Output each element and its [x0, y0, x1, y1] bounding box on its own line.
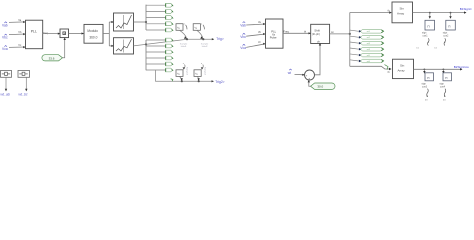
- wire to lookup2: [109, 45, 113, 47]
- wire Vab to PLL: [9, 21, 26, 23]
- svg-text:wt_ab: wt_ab: [1, 93, 10, 97]
- goto tag T5: [350, 53, 384, 57]
- measurement block M2: [18, 71, 30, 78]
- svg-text:Vab: Vab: [240, 24, 246, 28]
- probe block P3: [422, 73, 434, 102]
- fanout vertical V2: [145, 40, 147, 70]
- goto tag G3: [146, 16, 173, 20]
- svg-text:wt: wt: [288, 71, 291, 75]
- svg-text:z: z: [184, 24, 185, 26]
- svg-text:Shift: Shift: [314, 28, 320, 32]
- svg-text:Array: Array: [398, 69, 406, 73]
- svg-text:Hold2: Hold2: [202, 46, 208, 48]
- lookup table L1: [114, 13, 134, 31]
- lookup table L2: [114, 38, 134, 54]
- svg-text:Vca: Vca: [240, 46, 246, 50]
- green marker near Sin Array2 input: [385, 65, 389, 70]
- svg-text:Trig2>: Trig2>: [215, 80, 224, 84]
- svg-text:z: z: [201, 63, 202, 65]
- svg-text:wt_bc: wt_bc: [19, 93, 28, 97]
- sum block S1: [305, 70, 315, 81]
- probe block P1: [417, 20, 435, 49]
- goto tag G6: [146, 38, 173, 42]
- wire Sin Array2 out: [414, 68, 463, 70]
- from label Vbc (input 2): [2, 34, 8, 40]
- subsystem PLL 6x Pulse: [266, 19, 284, 48]
- svg-text:Sin: Sin: [400, 63, 405, 67]
- wire D3 out to Trig2 wire: [180, 76, 183, 82]
- wire top run to Sin Array1: [350, 11, 392, 13]
- wire sum out up to Shift ph: [315, 43, 322, 75]
- wire D2 out to Trig wire: [197, 30, 209, 48]
- from label Vab (input 1): [2, 22, 8, 28]
- wire L2 long to Trig label: [134, 38, 215, 46]
- wire wt to sum: [295, 74, 305, 76]
- from label Vbc2 (right input 2): [240, 33, 246, 39]
- block Modulo 360.0: [84, 24, 103, 43]
- junction dot V2: [145, 43, 147, 45]
- goto tag G11: [146, 68, 173, 72]
- probe block P2: [435, 20, 456, 49]
- detector block D1: [176, 24, 187, 31]
- goto tag T1: [350, 30, 384, 34]
- wire to PLL pulse in1: [246, 23, 265, 25]
- wire bottom run to Sin Array2: [350, 66, 392, 70]
- svg-text:Sample3: Sample3: [186, 67, 188, 76]
- svg-text:cos4: cos4: [440, 86, 446, 89]
- from label Vca2 (right input 3): [240, 44, 246, 50]
- detector block D3: [176, 63, 185, 76]
- subsystem PLL: [26, 20, 43, 49]
- wire Shift out to fanout V3: [330, 33, 350, 35]
- subsystem Sin Array 2: [393, 59, 414, 78]
- svg-text:Pulse: Pulse: [270, 35, 277, 39]
- goto tag G7: [146, 44, 173, 48]
- wire M1 down: [5, 77, 7, 91]
- svg-text:Π: Π: [427, 76, 429, 80]
- tap wire to probe P4: [442, 69, 444, 74]
- subsystem Sin Array 1: [392, 2, 413, 23]
- svg-text:B1SignC: B1SignC: [460, 7, 473, 11]
- tap wire to probe P2: [449, 12, 451, 19]
- probe block P4: [440, 73, 452, 102]
- svg-text:Vbc: Vbc: [240, 35, 246, 39]
- wire L1 to fanout V1: [134, 21, 147, 23]
- goto tag G10: [146, 62, 173, 66]
- svg-text:30.0: 30.0: [317, 84, 323, 88]
- from label Vab2 (right input 1): [240, 22, 246, 28]
- wire PLL to product: [43, 33, 60, 35]
- svg-text:(th-ph): (th-ph): [312, 32, 320, 36]
- svg-text:Sample4: Sample4: [204, 67, 206, 76]
- svg-text:cos1: cos1: [423, 35, 429, 38]
- wire modulo out: [103, 33, 109, 35]
- svg-text:+: +: [308, 77, 310, 81]
- svg-text:+: +: [306, 74, 308, 78]
- svg-text:z: z: [183, 63, 184, 65]
- wire Vca to PLL: [9, 46, 26, 48]
- wire V2 tail to Trig2: [156, 70, 214, 82]
- wire to PLL pulse in3: [246, 43, 265, 48]
- svg-text:Vca: Vca: [2, 47, 8, 51]
- measurement block M1: [1, 71, 12, 78]
- svg-text:Vbc: Vbc: [2, 36, 8, 40]
- svg-text:360.0: 360.0: [89, 35, 97, 39]
- svg-text:cos3: cos3: [422, 86, 428, 89]
- wire constant to sum: [308, 80, 311, 86]
- svg-text:Vab: Vab: [2, 23, 8, 27]
- green marker on Trig2 wire: [171, 79, 173, 82]
- goto tag T2: [350, 36, 384, 40]
- goto tag G4: [146, 22, 173, 26]
- wire product to modulo: [69, 32, 84, 34]
- wire M2 down: [25, 77, 27, 91]
- constant 33.6 (green pill): [42, 55, 63, 61]
- detector block D2: [193, 24, 204, 31]
- wire D4 out to Trig2 wire: [197, 76, 199, 82]
- tap wire to probe P3: [423, 69, 425, 74]
- wire constant to product: [63, 38, 66, 58]
- svg-text:Hold1: Hold1: [181, 46, 187, 48]
- wire D1 out to Trig wire: [180, 30, 189, 48]
- svg-text:33.6: 33.6: [49, 57, 55, 61]
- svg-text:B2SignCos: B2SignCos: [454, 65, 470, 69]
- goto tag G1: [146, 3, 173, 7]
- svg-text:Sin: Sin: [400, 6, 405, 10]
- from label Vca (input 3): [2, 46, 8, 52]
- goto tag G8: [146, 50, 173, 54]
- goto tag G2: [146, 10, 173, 14]
- wire to PLL pulse in2: [246, 33, 265, 36]
- wire PLL pulse to Shift: [283, 32, 311, 34]
- svg-text:Π: Π: [448, 25, 450, 29]
- goto tag G5: [146, 28, 173, 32]
- product block X1: [60, 29, 69, 38]
- constant 30.0 (green pill): [311, 83, 336, 89]
- wire Vbc to PLL: [9, 33, 26, 35]
- junction dot V3: [349, 33, 351, 35]
- junction dot V1: [145, 21, 147, 23]
- fanout vertical V1: [145, 5, 147, 30]
- goto tag T4: [350, 47, 384, 51]
- svg-text:Array: Array: [397, 12, 405, 16]
- svg-text:Freq: Freq: [283, 30, 289, 34]
- wire to lookup1: [109, 21, 113, 23]
- tap wire to probe P1: [429, 12, 431, 19]
- subsystem Shift (th-ph): [311, 24, 330, 43]
- signal label wt: [288, 69, 292, 75]
- svg-text:Π: Π: [427, 25, 429, 29]
- goto tag G9: [146, 56, 173, 60]
- svg-text:PLL: PLL: [31, 30, 37, 34]
- goto tag T6: [350, 59, 384, 63]
- detector block D4: [194, 63, 203, 76]
- wire Sin Array1 out: [413, 11, 467, 13]
- goto tag T3: [350, 41, 384, 45]
- wire branch vertical: [108, 22, 110, 46]
- svg-text:Π: Π: [445, 76, 447, 80]
- fanout vertical V3: [349, 13, 351, 67]
- svg-text:cos2: cos2: [443, 35, 449, 38]
- svg-text:Trig>: Trig>: [216, 37, 224, 41]
- svg-text:Modulo: Modulo: [87, 29, 98, 33]
- svg-text:z: z: [201, 24, 202, 26]
